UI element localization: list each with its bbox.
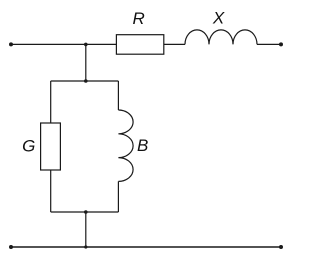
inductor B (susceptance) <box>118 110 133 181</box>
wire: shunt bottom bar <box>51 211 119 213</box>
svg-text:G: G <box>22 137 35 156</box>
svg-text:R: R <box>132 9 144 28</box>
wire: left branch top, bar to conductance G <box>50 81 52 123</box>
wire: center vertical from top rail to shunt top bar <box>85 44 87 81</box>
wire: shunt top bar <box>51 80 119 82</box>
svg-text:X: X <box>212 9 225 28</box>
node: junction on shunt top bar <box>84 79 88 83</box>
conductance G (box) <box>41 123 61 170</box>
node: junction on shunt bottom bar <box>84 210 88 214</box>
wire: center vertical from bottom bar to bottom rail <box>85 212 87 247</box>
node: right output terminal <box>279 42 283 46</box>
node: junction of top rail and shunt branch <box>84 43 88 47</box>
wire: left branch bottom, G to bottom bar <box>50 170 52 212</box>
node: junction of bottom rail and shunt branch <box>84 245 87 248</box>
wire: bottom rail <box>11 246 281 248</box>
node: bottom right terminal <box>279 245 283 249</box>
wire: top rail, left terminal to center junction <box>11 43 86 45</box>
wire: right branch bottom, B to bottom bar <box>117 181 119 212</box>
resistor R <box>116 35 163 55</box>
wire: right branch top, bar to susceptance B <box>117 81 119 110</box>
wire: resistor R to inductor X <box>164 43 185 45</box>
node: bottom left terminal <box>9 245 13 249</box>
wire: top rail, center junction to resistor R <box>86 43 117 45</box>
wire: inductor X to right terminal <box>257 43 281 45</box>
inductor X <box>185 30 257 44</box>
svg-text:B: B <box>137 136 148 155</box>
node: left input terminal <box>9 42 13 46</box>
